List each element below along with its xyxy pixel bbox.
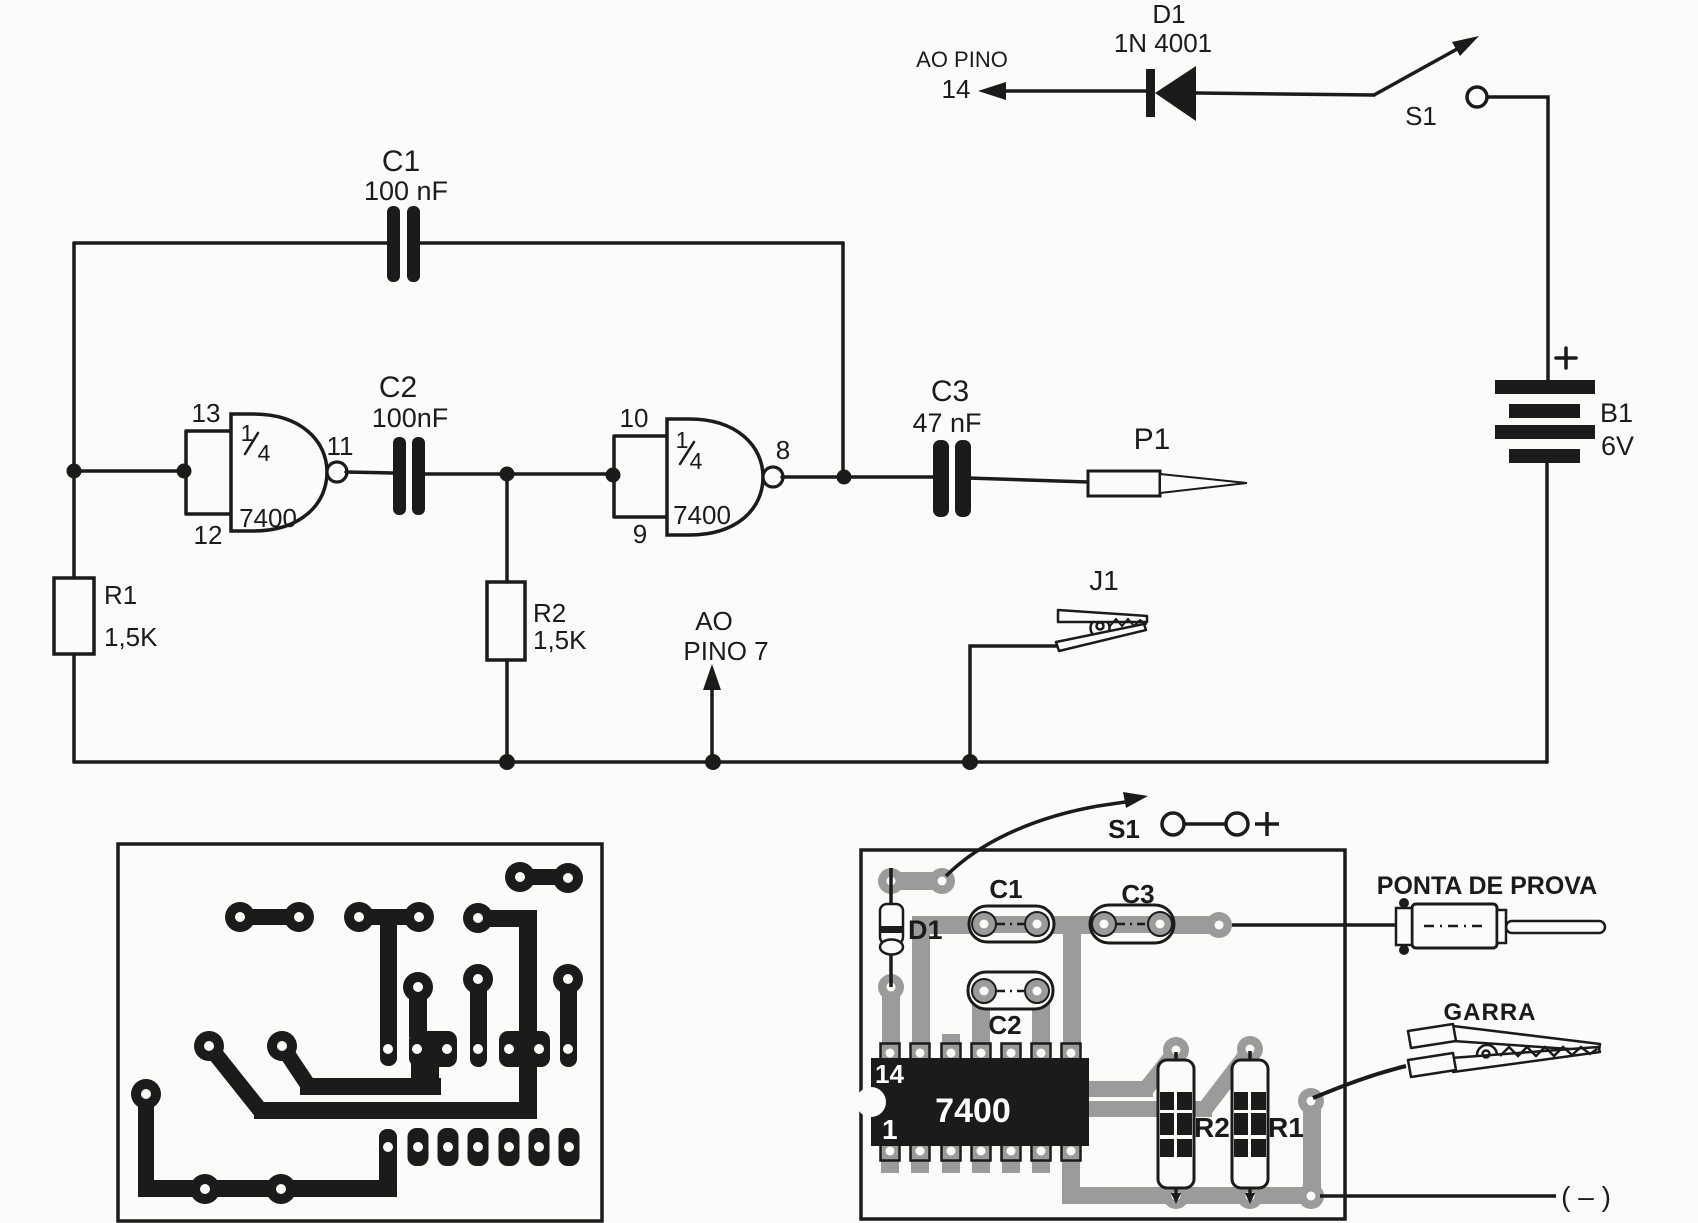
svg-text:R2: R2 <box>533 598 566 628</box>
svg-text:C1: C1 <box>989 874 1022 904</box>
trace net6 stub <box>463 964 493 1067</box>
svg-text:C2: C2 <box>379 371 417 404</box>
trace net3 T shape <box>344 902 434 1066</box>
wire bottom rail <box>74 760 1547 764</box>
svg-text:1,5K: 1,5K <box>104 622 158 652</box>
resistor R1 <box>54 578 158 654</box>
svg-text:S1: S1 <box>1405 101 1437 131</box>
svg-text:B1: B1 <box>1600 398 1633 428</box>
node gate2 input junction <box>606 468 621 483</box>
svg-text:8: 8 <box>776 435 790 465</box>
S1 annotation contacts <box>1162 812 1279 836</box>
wire gate1 output <box>346 472 393 473</box>
trace D1 to pin14 <box>878 974 904 1049</box>
trace stub pin12 <box>942 1034 960 1048</box>
capacitor C1 <box>364 145 448 282</box>
wire R2 leads <box>505 474 509 762</box>
node R2 junction <box>500 467 515 482</box>
svg-text:AO: AO <box>695 606 733 636</box>
wire to garra <box>1313 1066 1406 1098</box>
svg-text:12: 12 <box>194 520 223 550</box>
IC 7400 body <box>856 1058 1089 1146</box>
pad holes <box>141 872 574 1194</box>
NAND gate U1b 7400 <box>667 419 783 535</box>
node left rail junction <box>67 464 82 479</box>
svg-text:C3: C3 <box>931 375 969 408</box>
svg-text:R1: R1 <box>1268 1112 1304 1143</box>
svg-text:GARRA: GARRA <box>1444 999 1537 1026</box>
trace S1 pads top left <box>878 868 955 894</box>
svg-text:9: 9 <box>633 519 647 549</box>
trace net5 with block <box>267 972 457 1095</box>
trace C2 right to pin9 <box>1032 1000 1050 1048</box>
capacitor C3 component <box>1090 879 1174 943</box>
wire to probe <box>1232 923 1396 927</box>
svg-text:AO PINO: AO PINO <box>916 47 1008 72</box>
clip J1 alligator <box>1056 565 1147 651</box>
trace net4 long L with block <box>194 903 550 1119</box>
svg-text:10: 10 <box>620 403 649 433</box>
capacitor C2 component <box>968 972 1053 1040</box>
trace riser pin8 <box>1063 916 1081 1051</box>
svg-text:7400: 7400 <box>239 503 297 533</box>
svg-text:14: 14 <box>875 1059 904 1089</box>
svg-text:13: 13 <box>192 398 221 428</box>
IC pads bottom row <box>881 1142 1081 1161</box>
svg-text:14: 14 <box>942 74 971 104</box>
wire feedback vertical <box>841 243 845 477</box>
svg-text:( – ): ( – ) <box>1561 1181 1611 1212</box>
svg-text:100 nF: 100 nF <box>364 176 448 206</box>
svg-text:1: 1 <box>676 427 689 453</box>
wire left rail <box>72 243 76 762</box>
wire S1 to battery <box>1488 97 1548 380</box>
switch S1 <box>1374 36 1487 131</box>
node bottom rail pin7 junction <box>705 754 721 770</box>
pad row small pads <box>408 1128 580 1166</box>
svg-text:C1: C1 <box>382 145 420 178</box>
svg-text:PINO 7: PINO 7 <box>683 636 768 666</box>
AO PINO 7 arrow <box>683 606 768 762</box>
pad holes component side <box>886 877 1316 1201</box>
trace net2 top left <box>225 902 314 932</box>
capacitor C2 <box>372 371 449 515</box>
diode D1 1N4001 <box>978 0 1374 121</box>
node gate2 output junction <box>837 470 852 485</box>
svg-text:7400: 7400 <box>935 1092 1011 1130</box>
svg-text:C3: C3 <box>1121 879 1154 909</box>
trace IC to R1 <box>1089 1036 1263 1117</box>
PCB board outline (component side) <box>861 850 1345 1219</box>
svg-text:R2: R2 <box>1194 1112 1230 1143</box>
wire battery to bottom rail <box>1545 463 1549 762</box>
trace riser pin13 <box>912 916 930 1051</box>
capacitor C1 component <box>969 874 1054 942</box>
wire C3 to P1 <box>968 478 1088 482</box>
trace bottom rail to minus pad <box>1062 1160 1324 1209</box>
node gate1 input junction <box>177 464 192 479</box>
svg-text:PONTA DE PROVA: PONTA DE PROVA <box>1377 872 1597 900</box>
NAND gate U1a 7400 <box>231 414 347 533</box>
trace C2 left to pin11 <box>972 1000 990 1048</box>
svg-text:S1: S1 <box>1108 814 1140 844</box>
wire top rail left segment <box>74 241 387 245</box>
svg-text:J1: J1 <box>1089 565 1119 596</box>
svg-text:P1: P1 <box>1134 423 1171 456</box>
resistor R2 component <box>1158 1052 1230 1204</box>
battery B1 6V <box>1495 348 1634 463</box>
svg-text:1: 1 <box>882 1114 898 1145</box>
svg-text:6V: 6V <box>1601 431 1634 461</box>
svg-text:4: 4 <box>690 448 703 474</box>
wire C2 to gate2 <box>425 472 614 476</box>
S1 annotation arrow <box>946 792 1148 876</box>
svg-text:1N 4001: 1N 4001 <box>1114 28 1212 58</box>
trace right vertical to garra pad <box>1298 1088 1324 1201</box>
node bottom rail R2 junction <box>499 754 515 770</box>
svg-text:4: 4 <box>258 440 271 466</box>
svg-text:C2: C2 <box>988 1010 1021 1040</box>
trace net8 bottom L <box>131 1079 397 1204</box>
svg-text:D1: D1 <box>908 915 943 945</box>
wire top rail right segment <box>420 241 843 245</box>
trace net1 top right <box>505 862 583 893</box>
IC pads top row <box>881 1044 1081 1063</box>
svg-text:R1: R1 <box>104 580 137 610</box>
node bottom rail J1 junction <box>962 754 978 770</box>
svg-text:1,5K: 1,5K <box>533 625 587 655</box>
svg-text:7400: 7400 <box>673 500 731 530</box>
trace net7 stub <box>553 964 583 1067</box>
probe PONTA DE PROVA drawing <box>1396 898 1605 955</box>
wire J1 lead <box>970 646 1059 762</box>
svg-text:47 nF: 47 nF <box>912 408 981 438</box>
wire gate2 output <box>782 475 934 479</box>
minus label line <box>1320 1194 1556 1198</box>
resistor R1 component <box>1232 1051 1304 1204</box>
svg-text:D1: D1 <box>1152 0 1185 29</box>
probe P1 <box>1088 423 1247 496</box>
wire gate2 input bracket <box>614 436 667 517</box>
diode D1 component <box>880 868 943 987</box>
clip GARRA alligator <box>1408 1024 1600 1077</box>
resistor R2 <box>487 582 587 660</box>
IC pad stubs bottom <box>881 1160 1050 1173</box>
wire gate1 input <box>74 469 186 473</box>
capacitor C3 <box>912 375 981 517</box>
trace horizontal C1 C3 row <box>912 912 1232 938</box>
wire gate1 input bracket <box>186 431 231 514</box>
svg-text:100nF: 100nF <box>372 403 449 433</box>
svg-text:11: 11 <box>327 431 354 461</box>
PCB board outline (solder side) <box>118 844 602 1221</box>
trace IC to R2 <box>1089 1037 1189 1097</box>
